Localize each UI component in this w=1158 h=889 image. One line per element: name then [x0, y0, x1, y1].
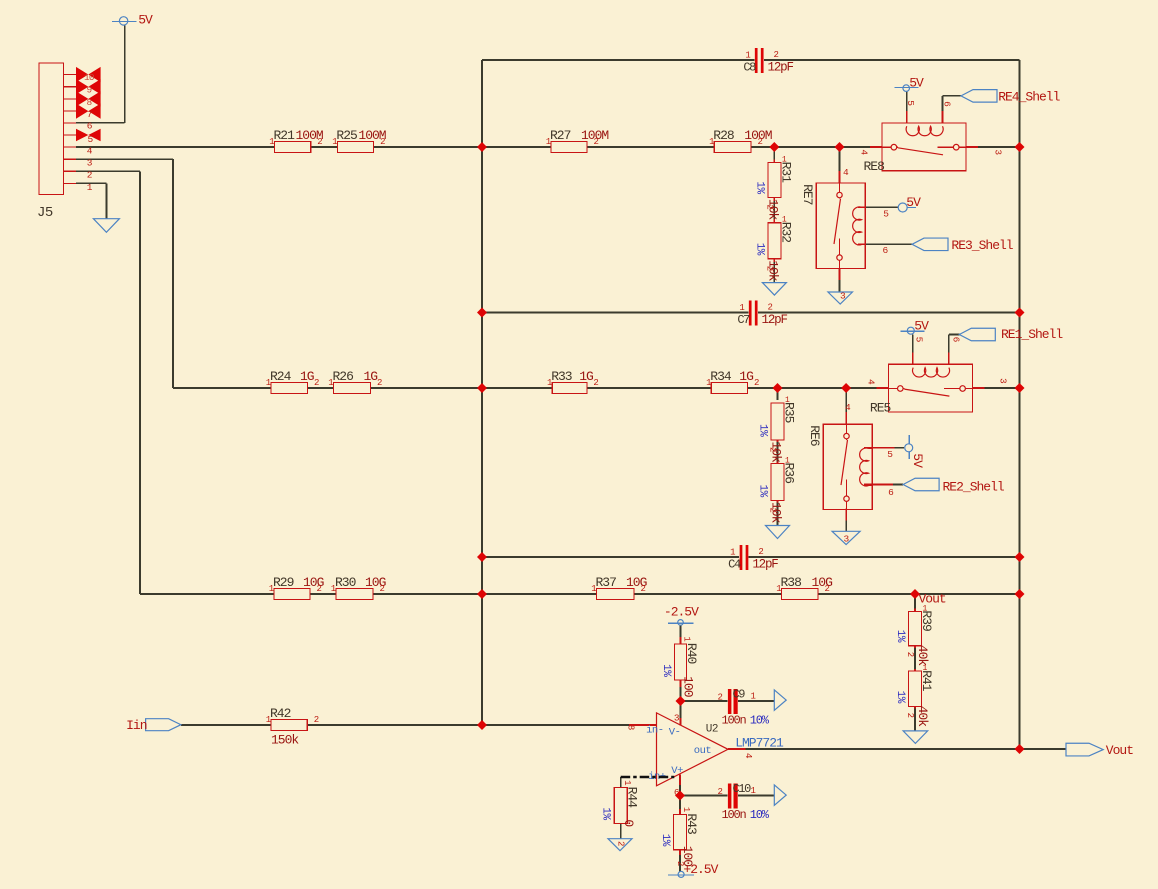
svg-text:1: 1: [266, 378, 271, 388]
svg-text:R27: R27: [550, 128, 571, 143]
svg-text:U2: U2: [706, 724, 718, 736]
svg-text:RE3_Shell: RE3_Shell: [951, 238, 1013, 253]
svg-text:7: 7: [87, 109, 92, 120]
svg-text:RE5: RE5: [870, 401, 891, 416]
svg-text:1G: 1G: [579, 369, 593, 384]
svg-text:R24: R24: [270, 369, 292, 384]
svg-text:2: 2: [768, 447, 778, 452]
svg-text:1: 1: [331, 584, 336, 594]
svg-text:12pF: 12pF: [762, 313, 788, 327]
svg-text:R37: R37: [596, 575, 617, 590]
svg-text:2: 2: [314, 715, 319, 725]
svg-text:C9: C9: [733, 688, 746, 702]
svg-text:2: 2: [905, 652, 915, 657]
svg-text:C4: C4: [728, 558, 741, 572]
svg-text:1%: 1%: [600, 807, 612, 820]
svg-text:2: 2: [641, 584, 646, 594]
svg-text:1: 1: [547, 378, 552, 388]
svg-text:10k: 10k: [765, 199, 780, 221]
svg-text:R32: R32: [778, 222, 793, 243]
svg-text:1: 1: [739, 303, 744, 313]
svg-text:RE6: RE6: [807, 425, 822, 446]
svg-text:2: 2: [718, 693, 723, 703]
svg-text:1: 1: [332, 137, 337, 147]
svg-text:10%: 10%: [750, 808, 770, 822]
svg-text:2: 2: [764, 204, 774, 209]
svg-text:10%: 10%: [750, 714, 770, 728]
svg-text:1: 1: [328, 378, 333, 388]
svg-text:Vout: Vout: [1106, 743, 1133, 758]
svg-text:1G: 1G: [300, 369, 314, 384]
svg-text:1: 1: [682, 636, 692, 641]
svg-text:1: 1: [709, 137, 714, 147]
svg-text:40k: 40k: [915, 706, 930, 728]
svg-text:1: 1: [681, 807, 691, 812]
svg-text:1: 1: [745, 51, 750, 61]
svg-text:1: 1: [730, 548, 735, 558]
svg-text:100n: 100n: [722, 808, 747, 822]
svg-text:V+: V+: [671, 765, 683, 777]
svg-text:2: 2: [380, 137, 385, 147]
svg-text:R42: R42: [270, 706, 291, 721]
svg-text:10k: 10k: [769, 442, 784, 464]
svg-text:1G: 1G: [364, 369, 378, 384]
svg-text:R30: R30: [335, 575, 356, 590]
svg-text:1: 1: [751, 786, 756, 796]
svg-text:1G: 1G: [739, 369, 753, 384]
svg-text:5V: 5V: [906, 195, 921, 210]
svg-text:RE4_Shell: RE4_Shell: [998, 89, 1060, 104]
svg-text:R36: R36: [782, 463, 797, 484]
svg-text:+2.5V: +2.5V: [683, 862, 718, 877]
svg-text:1: 1: [269, 584, 274, 594]
svg-text:2: 2: [768, 508, 778, 513]
svg-text:1: 1: [266, 715, 271, 725]
svg-text:R26: R26: [333, 369, 354, 384]
svg-text:R31: R31: [778, 162, 793, 184]
svg-text:10k: 10k: [769, 502, 784, 524]
svg-text:C10: C10: [733, 782, 752, 796]
svg-text:-2.5V: -2.5V: [664, 604, 699, 619]
svg-text:Vout: Vout: [919, 591, 946, 606]
svg-text:R33: R33: [551, 369, 572, 384]
svg-text:1: 1: [269, 137, 274, 147]
svg-text:R44: R44: [625, 787, 640, 809]
svg-text:R25: R25: [336, 128, 357, 143]
svg-text:1%: 1%: [894, 630, 906, 643]
svg-text:R21: R21: [274, 128, 296, 143]
svg-text:Iin: Iin: [126, 718, 147, 733]
svg-text:2: 2: [317, 584, 322, 594]
svg-text:10k: 10k: [765, 260, 780, 282]
svg-text:12pF: 12pF: [752, 558, 778, 572]
svg-text:R35: R35: [782, 402, 797, 423]
svg-text:5V: 5V: [910, 453, 925, 468]
svg-text:2: 2: [768, 303, 773, 313]
svg-text:2: 2: [594, 137, 599, 147]
svg-text:2: 2: [905, 713, 915, 718]
svg-text:R39: R39: [919, 610, 934, 631]
svg-text:out: out: [694, 745, 712, 757]
svg-text:2: 2: [314, 378, 319, 388]
svg-text:RE8: RE8: [864, 159, 885, 174]
svg-text:5V: 5V: [914, 319, 929, 334]
svg-text:100: 100: [681, 676, 696, 697]
svg-text:LMP7721: LMP7721: [735, 735, 784, 750]
svg-text:R43: R43: [684, 813, 699, 834]
svg-text:2: 2: [754, 378, 759, 388]
svg-text:1: 1: [776, 584, 781, 594]
svg-text:1: 1: [751, 692, 756, 702]
svg-text:J5: J5: [37, 205, 53, 221]
svg-text:RE7: RE7: [800, 184, 815, 205]
svg-text:1%: 1%: [894, 691, 906, 704]
svg-text:R38: R38: [781, 575, 802, 590]
svg-text:2: 2: [774, 50, 779, 60]
svg-text:2: 2: [593, 378, 598, 388]
svg-text:C8: C8: [743, 61, 756, 75]
svg-text:1%: 1%: [753, 181, 765, 194]
svg-text:150k: 150k: [271, 733, 299, 748]
svg-text:1%: 1%: [659, 834, 671, 847]
svg-text:5V: 5V: [909, 76, 924, 91]
svg-text:RE1_Shell: RE1_Shell: [1001, 327, 1063, 342]
svg-text:RE2_Shell: RE2_Shell: [943, 479, 1005, 494]
svg-text:R34: R34: [710, 369, 732, 384]
svg-text:5V: 5V: [138, 13, 153, 28]
svg-text:2: 2: [380, 584, 385, 594]
svg-text:R40: R40: [684, 643, 699, 664]
svg-text:2: 2: [758, 547, 763, 557]
svg-text:2: 2: [825, 584, 830, 594]
svg-text:0: 0: [621, 819, 636, 826]
svg-text:2: 2: [764, 266, 774, 271]
svg-text:R41: R41: [919, 670, 934, 692]
svg-text:R28: R28: [713, 128, 734, 143]
svg-text:1%: 1%: [753, 243, 765, 256]
svg-text:2: 2: [718, 787, 723, 797]
svg-text:R29: R29: [273, 575, 294, 590]
svg-text:2: 2: [758, 137, 763, 147]
svg-text:2: 2: [377, 378, 382, 388]
svg-text:1%: 1%: [660, 664, 672, 677]
svg-text:1: 1: [706, 378, 711, 388]
svg-text:V-: V-: [669, 726, 681, 738]
svg-text:2: 2: [616, 841, 626, 846]
svg-text:12pF: 12pF: [768, 61, 794, 75]
svg-text:1: 1: [622, 780, 632, 785]
svg-text:C7: C7: [737, 313, 750, 327]
svg-text:10: 10: [84, 72, 95, 83]
svg-text:1%: 1%: [757, 424, 769, 437]
svg-text:1: 1: [591, 584, 596, 594]
svg-text:2: 2: [317, 137, 322, 147]
svg-text:1: 1: [546, 137, 551, 147]
svg-text:100n: 100n: [722, 714, 747, 728]
svg-text:in-: in-: [646, 725, 663, 737]
svg-text:1%: 1%: [757, 485, 769, 498]
